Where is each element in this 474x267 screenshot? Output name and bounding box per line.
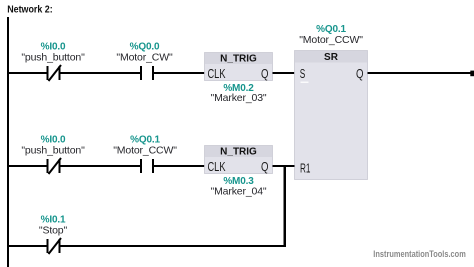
wire rung1: rail to contact I0.0 (8, 72, 48, 74)
contact %Q0.0 NO (Motor_CW) rung1 (140, 66, 154, 80)
N_TRIG block U1 (205, 53, 273, 82)
N_TRIG block U2 (205, 146, 273, 175)
contact %I0.0 NC (push_button) rung1 (47, 65, 62, 81)
svg-text:"push_button": "push_button" (21, 52, 85, 64)
wire U1 Q to SR S (273, 72, 295, 74)
junction square at right edge (470, 71, 474, 77)
svg-text:Q: Q (261, 159, 269, 174)
svg-text:N_TRIG: N_TRIG (220, 54, 257, 65)
svg-text:"Stop": "Stop" (39, 225, 68, 237)
contact %Q0.1 NO (Motor_CCW) rung2 (140, 159, 154, 173)
wire rung2: rail to contact I0.0 (8, 165, 48, 167)
svg-text:"Motor_CW": "Motor_CW" (116, 52, 173, 64)
svg-text:InstrumentationTools.com: InstrumentationTools.com (373, 249, 466, 260)
svg-text:"Motor_CCW": "Motor_CCW" (299, 34, 363, 46)
wire rung1: contact1 to contact2 (61, 72, 142, 74)
wire rung1: contact2 to N_TRIG U1 (154, 72, 205, 74)
wire rung3: contact to branch (61, 245, 287, 247)
svg-text:R1: R1 (300, 161, 311, 176)
wire SR Q to right edge (368, 72, 474, 74)
svg-text:"Marker_03": "Marker_03" (211, 92, 267, 104)
svg-text:Q: Q (261, 66, 269, 81)
svg-text:"Marker_04": "Marker_04" (211, 186, 267, 198)
wire U2 Q to SR R1 (273, 165, 295, 167)
left power rail (7, 17, 9, 267)
svg-text:S: S (300, 66, 306, 81)
contact %I0.1 NC (Stop) rung3 (47, 238, 62, 254)
svg-text:Network 2:: Network 2: (7, 5, 53, 16)
svg-text:CLK: CLK (208, 66, 226, 81)
svg-text:"Motor_CCW": "Motor_CCW" (113, 145, 177, 157)
wire rung2: contact2 to N_TRIG U2 (154, 165, 205, 167)
wire rung3: rail to contact I0.1 (8, 245, 48, 247)
wire vertical branch from rung3 up to R1 line (284, 165, 287, 247)
wire rung2: contact1 to contact2 (61, 165, 142, 167)
svg-text:SR: SR (324, 52, 339, 63)
svg-text:N_TRIG: N_TRIG (220, 147, 257, 158)
contact %I0.0 NC (push_button) rung2 (47, 158, 62, 174)
SR block U3 (295, 51, 368, 180)
svg-text:Q: Q (356, 66, 364, 81)
svg-text:"push_button": "push_button" (21, 145, 85, 157)
svg-text:CLK: CLK (208, 159, 226, 174)
